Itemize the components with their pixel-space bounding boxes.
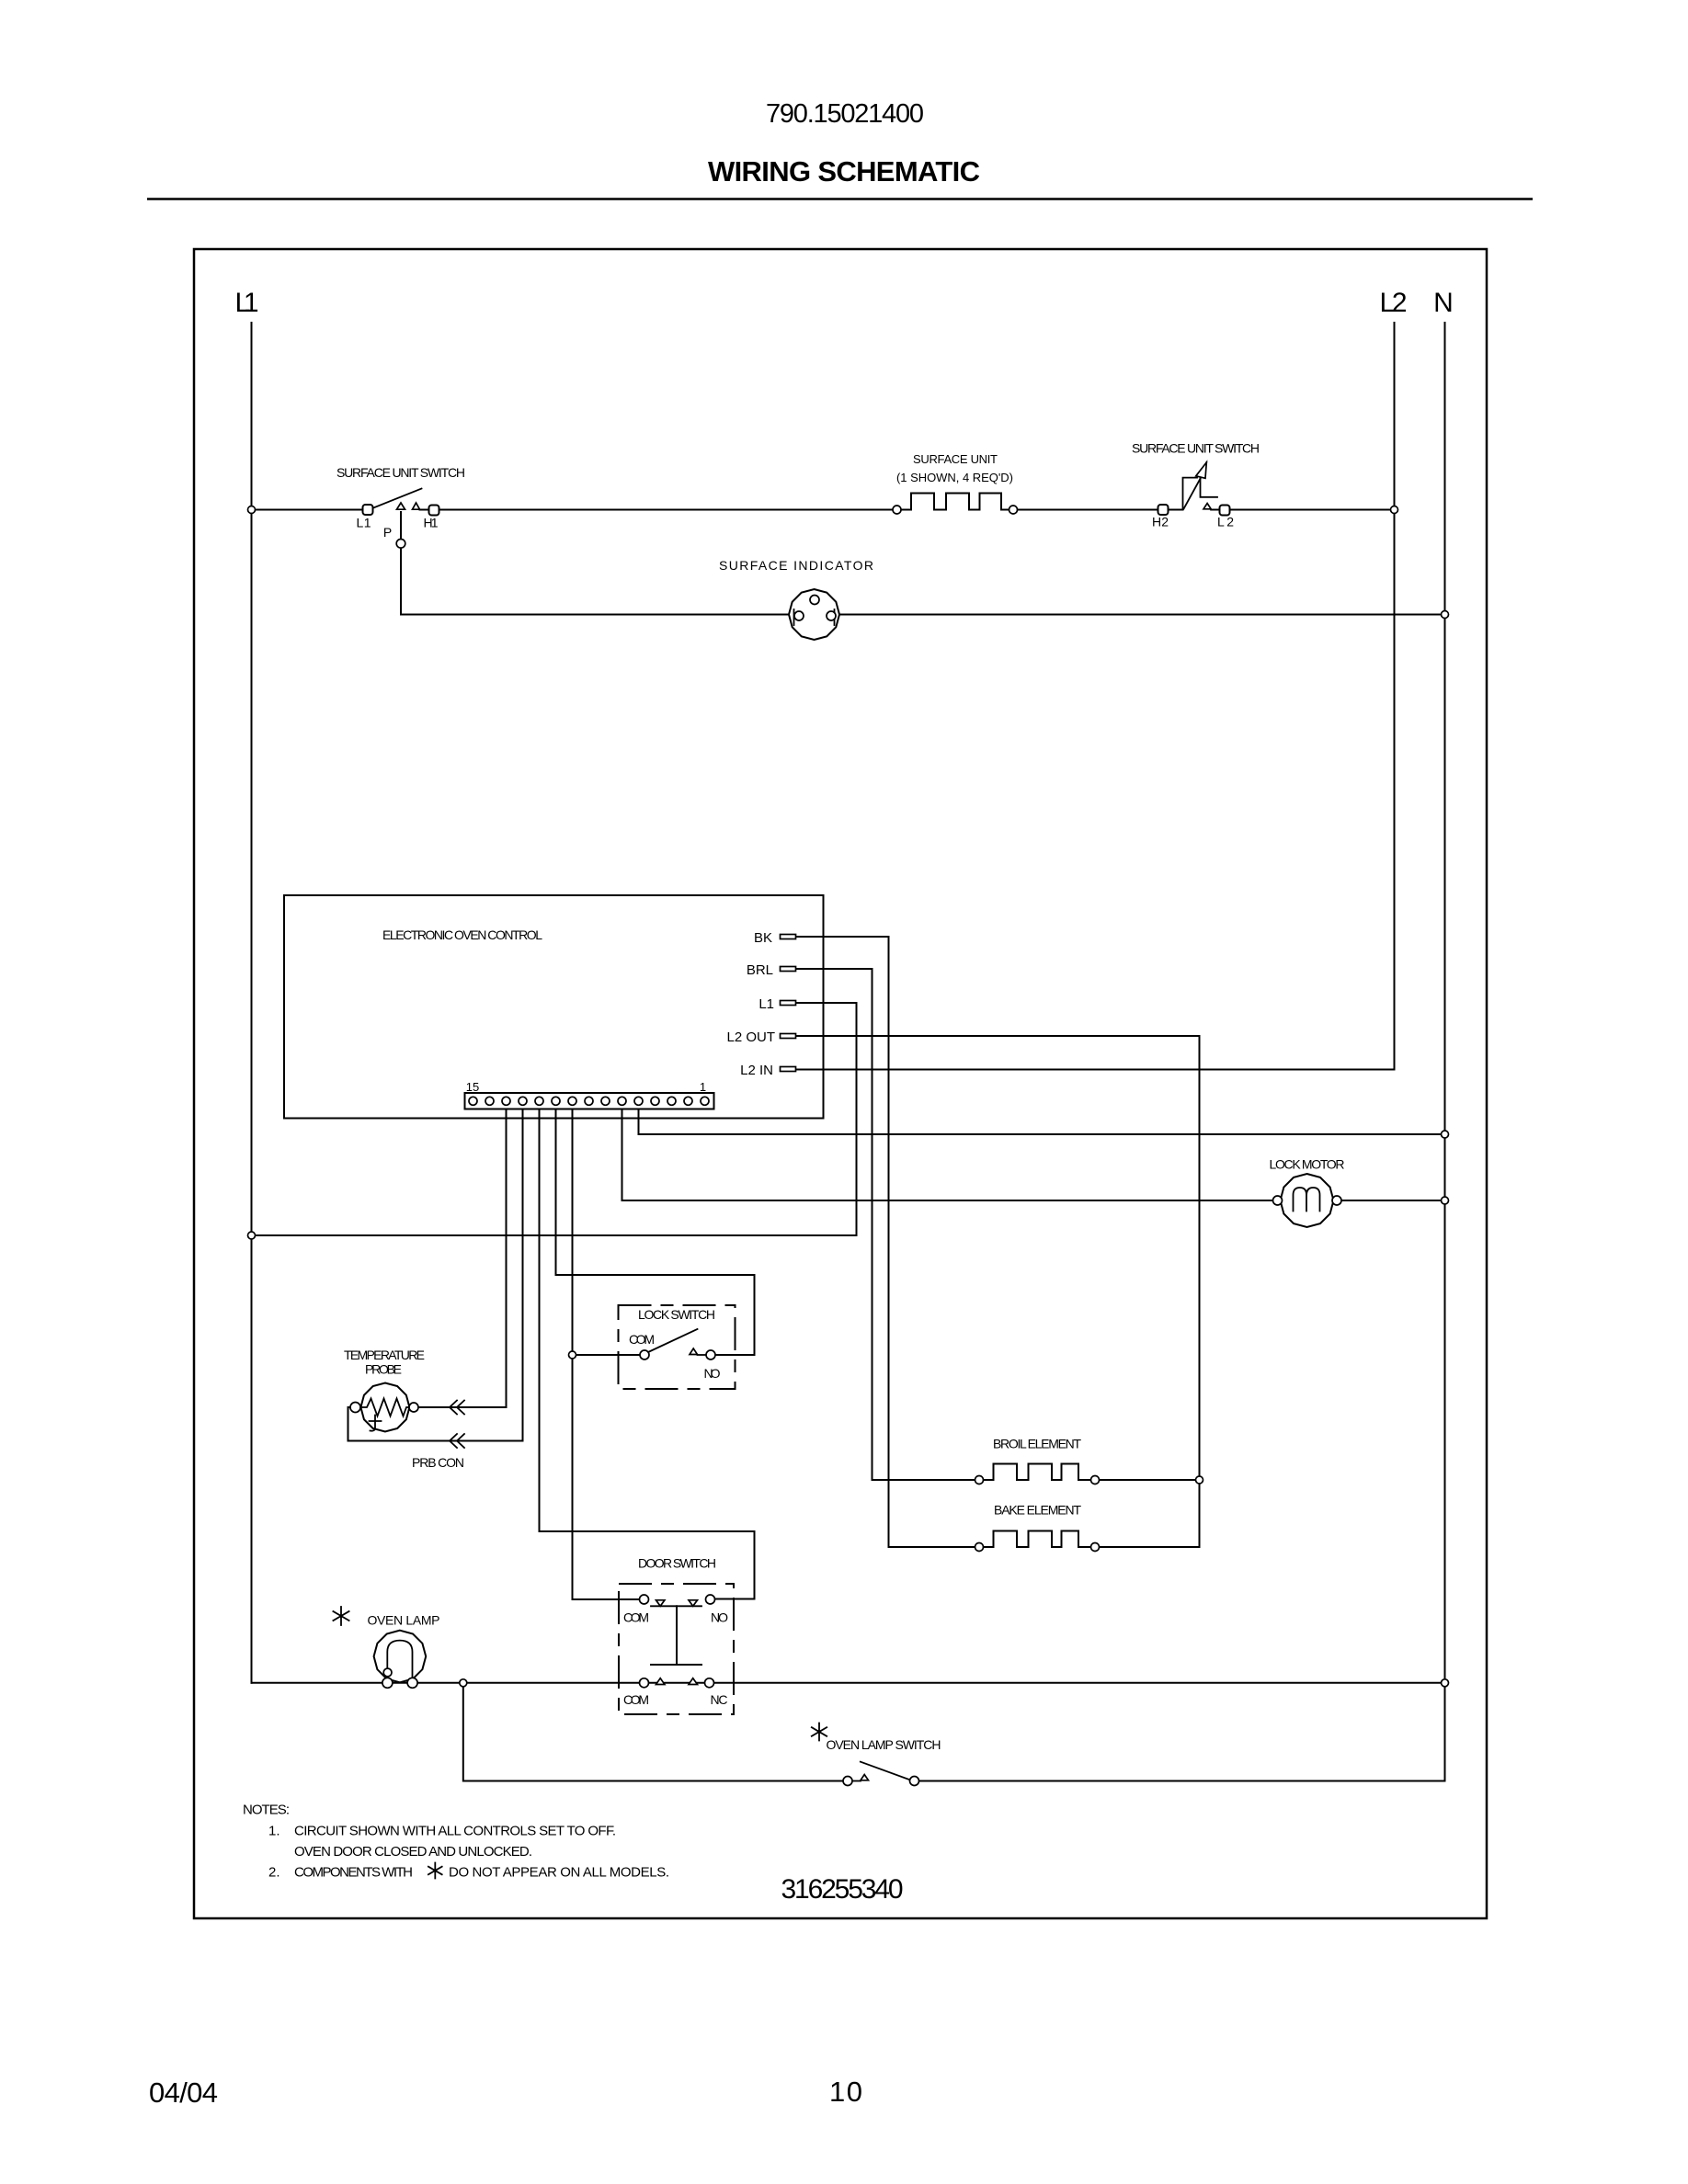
svg-text:PRB CON: PRB CON <box>412 1455 464 1470</box>
svg-text:LOCK SWITCH: LOCK SWITCH <box>638 1307 715 1322</box>
wire lock switch COM branch <box>573 1354 641 1356</box>
lamp surface indicator <box>719 558 873 640</box>
asterisk for oven lamp <box>333 1607 348 1625</box>
node L1 <box>235 288 259 318</box>
svg-text:NC: NC <box>711 1692 728 1707</box>
wire BRL output to broil element <box>797 969 994 1480</box>
svg-text:COMPONENTS WITH: COMPONENTS WITH <box>294 1865 413 1881</box>
wire L2 IN to L2 rail <box>797 1069 1395 1071</box>
lock motor M1 <box>1270 1157 1345 1228</box>
wire top row L1 to surface unit switch <box>252 509 364 511</box>
wire pilot P to surface indicator <box>401 512 789 615</box>
wire L1 rail <box>251 323 253 1683</box>
svg-text:ELECTRONIC OVEN CONTROL: ELECTRONIC OVEN CONTROL <box>382 927 542 942</box>
svg-text:SURFACE UNIT SWITCH: SURFACE UNIT SWITCH <box>1132 441 1260 456</box>
svg-text:CIRCUIT SHOWN WITH ALL CONTROL: CIRCUIT SHOWN WITH ALL CONTROLS SET TO O… <box>294 1824 616 1839</box>
junction node broil right <box>1196 1476 1203 1484</box>
svg-text:BAKE ELEMENT: BAKE ELEMENT <box>994 1503 1081 1518</box>
svg-text:BRL: BRL <box>747 962 773 978</box>
wire surface indicator to N <box>839 614 1445 616</box>
svg-text:1.: 1. <box>268 1824 280 1839</box>
svg-text:2.: 2. <box>268 1865 280 1881</box>
electronic oven control U1 <box>284 895 824 1119</box>
wire pin 10 to lock motor <box>622 1109 1273 1200</box>
bake element R2 <box>975 1503 1100 1552</box>
svg-text:H1: H1 <box>424 516 439 530</box>
svg-text:790.15021400: 790.15021400 <box>766 99 924 129</box>
wire pin 4 to temperature probe return <box>348 1109 523 1441</box>
junction node N bottom <box>1442 1679 1449 1687</box>
svg-text:NO: NO <box>704 1366 721 1381</box>
oven lamp switch S5 <box>827 1737 941 1786</box>
svg-text:SURFACE UNIT SWITCH: SURFACE UNIT SWITCH <box>336 465 465 480</box>
wire oven lamp switch to N <box>919 1780 1445 1782</box>
svg-text:BK: BK <box>754 930 772 946</box>
wire L2 terminal to L2 rail <box>1229 509 1395 511</box>
wire N rail <box>1444 323 1446 1781</box>
connector J1 pin strip <box>465 1080 714 1109</box>
part number 316255340 <box>781 1874 904 1905</box>
surface unit switch S2 <box>1132 441 1260 529</box>
svg-text:WIRING SCHEMATIC: WIRING SCHEMATIC <box>708 155 980 188</box>
svg-text:316255340: 316255340 <box>781 1874 904 1905</box>
junction node N indicator <box>1442 611 1449 619</box>
junction node L1 top <box>248 506 256 514</box>
notes text <box>243 1803 669 1881</box>
junction node lock switch COM <box>569 1351 576 1359</box>
svg-text:PROBE: PROBE <box>365 1362 402 1377</box>
junction node N pin11 <box>1442 1131 1449 1138</box>
node L2 <box>1380 288 1408 318</box>
node N <box>1433 288 1454 318</box>
surface unit heating element <box>893 452 1018 514</box>
svg-text:DOOR SWITCH: DOOR SWITCH <box>638 1556 716 1571</box>
svg-text:L1: L1 <box>758 996 774 1012</box>
wire pin 3 to temperature probe <box>419 1109 507 1407</box>
svg-text:L2: L2 <box>1380 288 1408 318</box>
svg-text:TEMPERATURE: TEMPERATURE <box>344 1348 425 1362</box>
svg-text:L2: L2 <box>1217 515 1234 529</box>
wire pin 7 to door switch COM <box>573 1109 640 1599</box>
wire pin 11 to N <box>639 1109 1445 1134</box>
svg-text:OVEN DOOR CLOSED AND UNLOCKED.: OVEN DOOR CLOSED AND UNLOCKED. <box>294 1844 532 1860</box>
wire surface unit to H2 <box>1001 509 1158 511</box>
svg-text:DO NOT APPEAR ON ALL MODELS.: DO NOT APPEAR ON ALL MODELS. <box>449 1865 669 1881</box>
lock switch S3 <box>619 1305 736 1389</box>
svg-text:OVEN LAMP SWITCH: OVEN LAMP SWITCH <box>827 1737 941 1752</box>
asterisk for oven lamp switch <box>812 1723 827 1741</box>
asterisk in note 2 <box>428 1863 442 1879</box>
wire oven lamp switch branch <box>463 1683 843 1781</box>
svg-text:15: 15 <box>466 1080 479 1094</box>
wire lock motor to N <box>1341 1200 1445 1201</box>
svg-text:BROIL ELEMENT: BROIL ELEMENT <box>993 1437 1081 1451</box>
connector PRB CON chevrons <box>450 1401 464 1449</box>
svg-text:P: P <box>383 525 392 540</box>
broil element R1 <box>975 1437 1100 1484</box>
svg-text:COM: COM <box>623 1692 649 1707</box>
door switch S4 <box>619 1556 734 1715</box>
wire pin 5 to door switch NO <box>540 1109 755 1599</box>
svg-text:L1: L1 <box>235 288 259 318</box>
surface unit switch S1 <box>336 465 465 548</box>
junction node N lock motor <box>1442 1197 1449 1204</box>
wire L2 OUT to elements <box>797 1036 1200 1547</box>
svg-text:SURFACE UNIT: SURFACE UNIT <box>913 452 998 466</box>
svg-text:SURFACE INDICATOR: SURFACE INDICATOR <box>719 558 873 573</box>
svg-text:04/04: 04/04 <box>149 2076 218 2109</box>
junction node L1 mid <box>248 1232 256 1239</box>
svg-text:COM: COM <box>629 1332 655 1347</box>
svg-text:LOCK MOTOR: LOCK MOTOR <box>1270 1157 1345 1172</box>
svg-text:L2 IN: L2 IN <box>740 1063 773 1078</box>
svg-text:H2: H2 <box>1152 515 1169 529</box>
wire L2 rail <box>1394 323 1396 1070</box>
svg-text:N: N <box>1433 288 1454 318</box>
temperature probe RT1 <box>344 1348 464 1470</box>
svg-text:COM: COM <box>623 1610 649 1625</box>
oven lamp DS1 <box>368 1613 440 1689</box>
svg-text:NO: NO <box>711 1610 728 1625</box>
junction node lamp switch tap <box>460 1679 467 1687</box>
junction node L2 top <box>1391 506 1398 514</box>
svg-text:L2 OUT: L2 OUT <box>726 1029 775 1045</box>
svg-text:NOTES:: NOTES: <box>243 1803 290 1818</box>
svg-text:1: 1 <box>700 1080 706 1094</box>
svg-text:(1 SHOWN, 4 REQ'D): (1 SHOWN, 4 REQ'D) <box>896 471 1013 484</box>
wire BK output to bake element <box>797 937 994 1547</box>
wire pin 6 to lock switch NO <box>556 1109 755 1355</box>
wire bake element right lead <box>1078 1546 1200 1548</box>
wire H1 to surface unit <box>439 509 911 511</box>
wire bottom row L1 to N <box>252 1682 1445 1684</box>
svg-text:OVEN LAMP: OVEN LAMP <box>368 1613 440 1628</box>
svg-text:10: 10 <box>829 2076 862 2108</box>
title block and page frame <box>147 99 1533 2109</box>
svg-text:L1: L1 <box>357 516 371 530</box>
wire L1 output to L1 rail <box>252 1003 857 1235</box>
wire broil element right lead <box>1078 1479 1200 1481</box>
